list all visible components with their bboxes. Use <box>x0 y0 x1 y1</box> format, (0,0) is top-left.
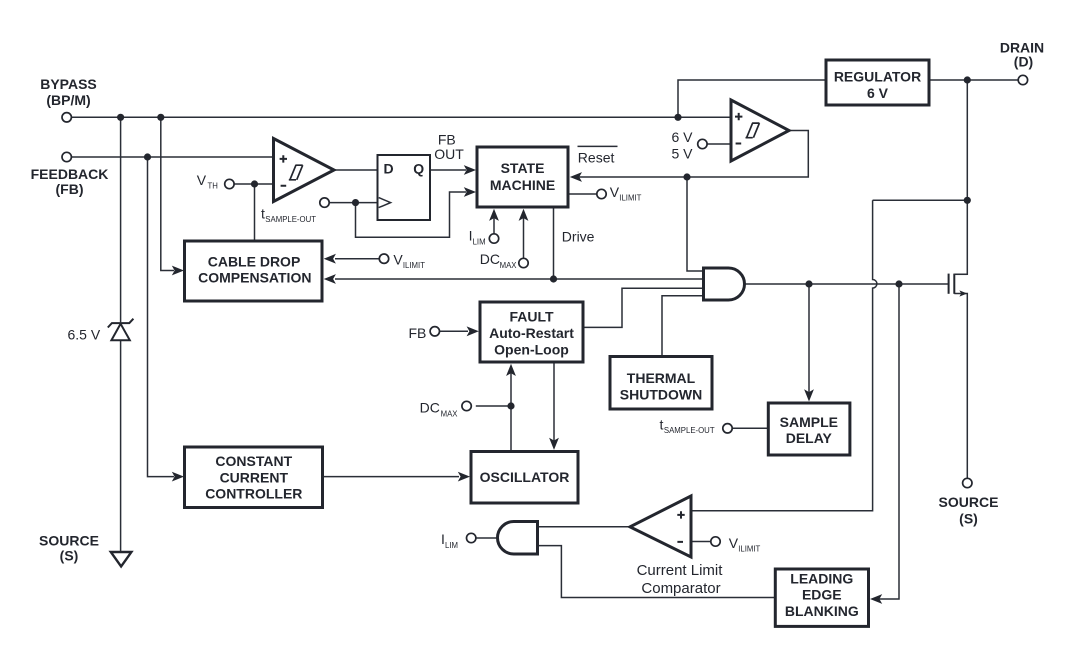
svg-text:OSCILLATOR: OSCILLATOR <box>480 469 570 485</box>
svg-text:CABLE DROP: CABLE DROP <box>208 253 301 269</box>
svg-text:Comparator: Comparator <box>641 580 720 597</box>
svg-text:COMPENSATION: COMPENSATION <box>198 270 311 286</box>
svg-text:t: t <box>660 416 664 432</box>
svg-text:OUT: OUT <box>434 146 464 162</box>
svg-text:FEEDBACK: FEEDBACK <box>31 166 109 182</box>
svg-text:Current Limit: Current Limit <box>637 562 724 579</box>
svg-text:SOURCE: SOURCE <box>39 533 99 549</box>
svg-text:CURRENT: CURRENT <box>220 469 289 485</box>
svg-text:SAMPLE-OUT: SAMPLE-OUT <box>664 426 715 435</box>
svg-text:6 V: 6 V <box>867 85 889 101</box>
svg-text:BYPASS: BYPASS <box>40 76 97 92</box>
svg-text:MACHINE: MACHINE <box>490 177 555 193</box>
svg-text:ILIMIT: ILIMIT <box>619 194 641 203</box>
svg-text:FAULT: FAULT <box>509 309 554 325</box>
svg-text:Auto-Restart: Auto-Restart <box>489 325 574 341</box>
svg-text:REGULATOR: REGULATOR <box>834 69 921 85</box>
svg-text:SAMPLE: SAMPLE <box>780 414 838 430</box>
svg-text:V: V <box>729 535 739 551</box>
svg-text:LEADING: LEADING <box>790 570 853 586</box>
svg-text:DC: DC <box>480 251 500 267</box>
svg-text:Q: Q <box>413 160 424 176</box>
svg-text:FB: FB <box>409 325 427 341</box>
svg-text:ILIMIT: ILIMIT <box>403 261 425 270</box>
svg-text:EDGE: EDGE <box>802 587 842 603</box>
svg-text:DC: DC <box>420 399 440 415</box>
svg-text:V: V <box>197 172 207 188</box>
svg-text:6 V: 6 V <box>671 129 693 145</box>
svg-text:V: V <box>393 252 403 268</box>
svg-text:DELAY: DELAY <box>786 430 833 446</box>
svg-text:D: D <box>384 160 394 176</box>
svg-text:TH: TH <box>208 182 218 191</box>
svg-text:MAX: MAX <box>500 261 518 270</box>
svg-text:(BP/M): (BP/M) <box>46 92 90 108</box>
svg-text:5 V: 5 V <box>671 145 693 161</box>
svg-text:CONSTANT: CONSTANT <box>215 453 292 469</box>
svg-text:(S): (S) <box>959 511 978 527</box>
svg-text:CONTROLLER: CONTROLLER <box>205 486 302 502</box>
svg-text:SAMPLE-OUT: SAMPLE-OUT <box>265 215 316 224</box>
svg-text:(FB): (FB) <box>56 181 84 197</box>
svg-text:(D): (D) <box>1014 54 1033 70</box>
svg-text:LIM: LIM <box>445 541 458 550</box>
svg-text:Drive: Drive <box>562 229 595 245</box>
svg-text:STATE: STATE <box>501 160 545 176</box>
svg-text:6.5 V: 6.5 V <box>68 327 101 343</box>
svg-text:THERMAL: THERMAL <box>627 370 696 386</box>
svg-text:ILIMIT: ILIMIT <box>738 544 760 553</box>
svg-text:LIM: LIM <box>473 238 486 247</box>
svg-text:Open-Loop: Open-Loop <box>494 341 569 357</box>
svg-text:V: V <box>610 184 620 200</box>
svg-text:Reset: Reset <box>578 149 615 165</box>
svg-text:BLANKING: BLANKING <box>785 603 859 619</box>
svg-text:(S): (S) <box>60 548 79 564</box>
svg-text:SHUTDOWN: SHUTDOWN <box>620 386 702 402</box>
svg-text:MAX: MAX <box>441 409 459 418</box>
svg-text:SOURCE: SOURCE <box>939 494 999 510</box>
